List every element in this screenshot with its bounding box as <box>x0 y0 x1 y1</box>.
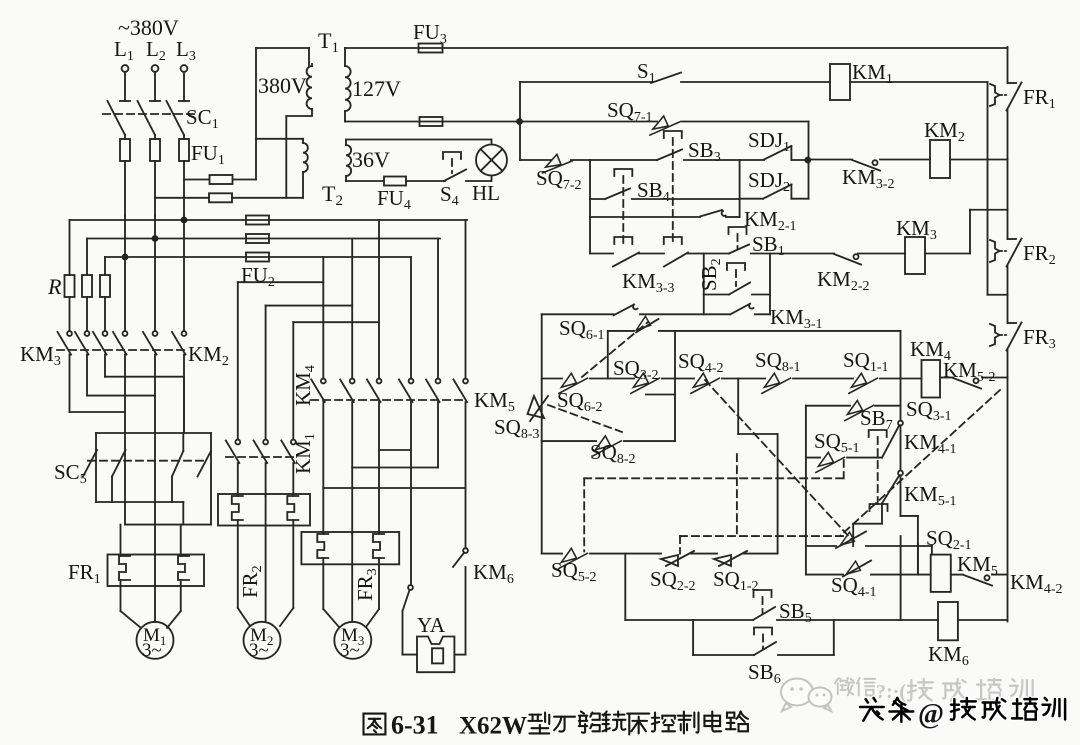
svg-text:?:·(: ?:·( <box>876 681 906 703</box>
svg-text:KM3: KM3 <box>896 216 937 243</box>
svg-text:L3: L3 <box>176 37 196 64</box>
svg-text:3~: 3~ <box>249 640 269 661</box>
svg-text:SB3: SB3 <box>688 138 721 165</box>
svg-text:SQ3-2: SQ3-2 <box>613 356 659 383</box>
svg-text:SDJ1: SDJ1 <box>748 128 790 155</box>
svg-text:36V: 36V <box>352 147 390 172</box>
svg-text:KM4-1: KM4-1 <box>904 430 957 457</box>
svg-text:L1: L1 <box>114 37 134 64</box>
svg-text:FU3: FU3 <box>413 20 447 47</box>
svg-text:KM3-2: KM3-2 <box>842 165 895 192</box>
svg-text:HL: HL <box>472 181 500 205</box>
svg-text:KM5: KM5 <box>957 552 998 579</box>
svg-text:SB4: SB4 <box>637 178 670 205</box>
svg-text:FU2: FU2 <box>241 263 275 290</box>
svg-text:6-31: 6-31 <box>391 711 439 740</box>
svg-text:SQ1-1: SQ1-1 <box>843 348 889 375</box>
svg-text:KM5-2: KM5-2 <box>943 358 996 385</box>
svg-text:KM1: KM1 <box>852 60 893 87</box>
svg-text:SB6: SB6 <box>748 660 781 687</box>
svg-text:KM6: KM6 <box>928 642 969 669</box>
svg-text:KM2: KM2 <box>924 118 965 145</box>
svg-text:FR1: FR1 <box>1023 85 1056 112</box>
svg-text:KM3-3: KM3-3 <box>622 269 675 296</box>
svg-text:KM4: KM4 <box>291 365 318 406</box>
svg-text:YA: YA <box>417 613 446 637</box>
svg-text:SC5: SC5 <box>54 460 87 487</box>
svg-text:KM2-2: KM2-2 <box>817 267 870 294</box>
svg-text:SQ4-1: SQ4-1 <box>831 573 877 600</box>
svg-text:S4: S4 <box>440 182 459 209</box>
svg-text:@: @ <box>918 699 944 730</box>
svg-text:SQ8-2: SQ8-2 <box>590 440 636 467</box>
svg-text:SB2: SB2 <box>697 258 724 291</box>
svg-text:SQ8-3: SQ8-3 <box>494 415 540 442</box>
svg-text:SQ5-1: SQ5-1 <box>814 429 860 456</box>
svg-text:KM2-1: KM2-1 <box>744 207 797 234</box>
svg-text:KM6: KM6 <box>473 560 514 587</box>
svg-text:KM3-1: KM3-1 <box>770 305 823 332</box>
svg-text:KM5-1: KM5-1 <box>904 482 957 509</box>
svg-text:KM2: KM2 <box>188 342 229 369</box>
svg-text:KM3: KM3 <box>20 342 61 369</box>
svg-text:3~: 3~ <box>142 640 162 661</box>
svg-text:FR2: FR2 <box>1023 241 1056 268</box>
svg-text:SB7: SB7 <box>860 406 893 433</box>
svg-text:SQ2-1: SQ2-1 <box>926 526 972 553</box>
svg-text:FR2: FR2 <box>238 565 265 598</box>
svg-text:SQ3-1: SQ3-1 <box>906 397 952 424</box>
svg-text:SQ7-1: SQ7-1 <box>607 98 653 125</box>
svg-text:KM4-2: KM4-2 <box>1010 570 1063 597</box>
svg-text:3~: 3~ <box>340 640 360 661</box>
svg-text:X62W: X62W <box>459 713 527 740</box>
svg-text:SQ1-2: SQ1-2 <box>713 567 759 594</box>
svg-text:KM5: KM5 <box>474 388 515 415</box>
svg-text:SDJ2: SDJ2 <box>748 168 790 195</box>
svg-text:T1: T1 <box>318 28 339 56</box>
svg-text:FU1: FU1 <box>191 141 225 168</box>
svg-text:380V: 380V <box>258 73 307 98</box>
svg-text:SC1: SC1 <box>186 105 219 132</box>
svg-text:T2: T2 <box>322 181 343 209</box>
svg-text:127V: 127V <box>352 76 401 101</box>
svg-text:SB1: SB1 <box>752 232 785 259</box>
svg-text:SQ6-1: SQ6-1 <box>559 316 605 343</box>
svg-text:FR3: FR3 <box>353 568 380 601</box>
svg-text:R: R <box>47 274 62 299</box>
svg-text:SQ4-2: SQ4-2 <box>678 349 724 376</box>
svg-text:FU4: FU4 <box>377 186 411 213</box>
svg-text:SQ2-2: SQ2-2 <box>650 567 696 594</box>
svg-text:L2: L2 <box>146 37 166 64</box>
svg-text:SQ5-2: SQ5-2 <box>551 558 597 585</box>
svg-text:SB5: SB5 <box>779 599 812 626</box>
svg-text:FR3: FR3 <box>1023 325 1056 352</box>
svg-text:SQ7-2: SQ7-2 <box>536 166 582 193</box>
svg-text:S1: S1 <box>637 59 656 86</box>
svg-text:FR1: FR1 <box>68 560 101 587</box>
svg-text:SQ8-1: SQ8-1 <box>755 348 801 375</box>
